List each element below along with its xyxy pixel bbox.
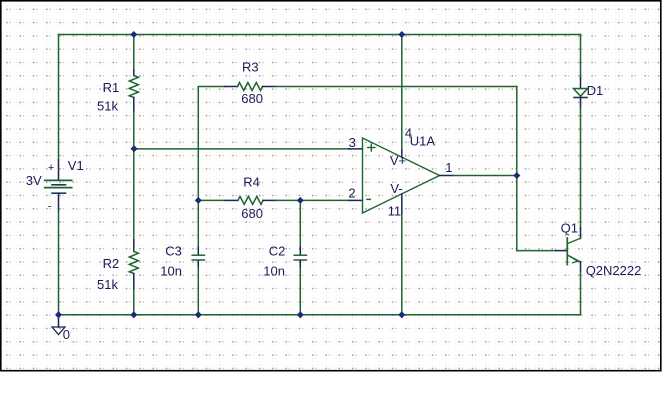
wire: Q1 emitter to bottom rail	[580, 262, 582, 315]
wire: C2 to bottom rail	[299, 268, 301, 315]
wire: op-amp output	[440, 175, 517, 177]
wire: C3 column upper	[197, 200, 199, 247]
svg-text:680: 680	[241, 206, 263, 221]
svg-text:0: 0	[63, 327, 70, 342]
wire: R4 left stub from node	[198, 199, 225, 201]
pin number 2	[348, 185, 355, 200]
svg-text:V+: V+	[390, 153, 406, 168]
resistor R3	[225, 83, 275, 91]
svg-text:11: 11	[388, 203, 402, 218]
op-amp U1A	[363, 138, 440, 213]
label V1	[68, 158, 84, 173]
node: bottom rail / R2	[130, 311, 137, 318]
svg-text:+: +	[48, 162, 54, 174]
wire: R3 left branch	[198, 87, 225, 201]
label 10n	[263, 263, 285, 278]
svg-text:4: 4	[405, 126, 412, 141]
svg-text:10n: 10n	[160, 263, 182, 278]
battery V1	[45, 162, 72, 213]
wire: R4 right to C2 node	[276, 199, 301, 201]
svg-text:Q2N2222: Q2N2222	[586, 263, 642, 278]
svg-text:2: 2	[348, 185, 355, 200]
label 3V	[26, 173, 42, 188]
svg-text:-: -	[48, 201, 52, 213]
wire: V- column to bottom rail	[401, 194, 403, 315]
capacitor C2	[294, 247, 306, 268]
label R4	[243, 174, 260, 189]
label D1	[587, 83, 604, 98]
label 10n	[160, 263, 182, 278]
pin number 11	[388, 203, 402, 218]
pin number 1	[445, 160, 452, 175]
diode D1	[574, 89, 588, 98]
node: top rail / V+ column	[398, 31, 405, 38]
wire: top rail	[59, 34, 581, 36]
svg-text:3V: 3V	[26, 173, 42, 188]
svg-text:680: 680	[241, 91, 263, 106]
svg-text:R2: R2	[103, 256, 120, 271]
wire: V+ column from top rail	[401, 35, 403, 158]
resistor R1	[129, 70, 138, 112]
wire: left rail lower (V1 to bottom rail)	[58, 193, 60, 315]
node: output/feedback junction	[513, 172, 520, 179]
svg-text:51k: 51k	[97, 277, 118, 292]
wire: R3 right to feedback column	[275, 86, 517, 88]
node: R4/C2/pin2 junction	[297, 197, 304, 204]
resistor R4	[226, 196, 276, 204]
svg-text:1: 1	[445, 160, 452, 175]
node: bottom rail / V- column	[398, 311, 405, 318]
svg-text:D1: D1	[587, 83, 604, 98]
wire: R1 to node A	[133, 112, 135, 149]
wire: R2 to bottom rail	[133, 290, 135, 315]
ground 0	[52, 315, 70, 342]
label R1	[103, 80, 120, 95]
svg-text:Q1: Q1	[561, 220, 578, 235]
transistor Q1	[567, 238, 580, 265]
svg-text:U1A: U1A	[410, 134, 436, 149]
label U1A	[410, 134, 436, 149]
pin number 4	[405, 126, 412, 141]
label Q2N2222	[586, 263, 642, 278]
wire: bottom rail	[59, 314, 581, 316]
wire: D1 column from top rail	[580, 35, 582, 89]
label R2	[103, 256, 120, 271]
capacitor C3	[192, 247, 204, 268]
label C2	[269, 244, 286, 259]
svg-text:C2: C2	[269, 244, 286, 259]
svg-text:10n: 10n	[263, 263, 285, 278]
resistor R2	[129, 240, 138, 290]
svg-text:R4: R4	[243, 174, 260, 189]
wire: R1 column from top rail	[133, 35, 135, 71]
svg-text:V1: V1	[68, 158, 84, 173]
node: bottom rail / ground	[55, 311, 62, 318]
label 680	[241, 91, 263, 106]
wire: R2 column	[133, 149, 135, 240]
label C3	[165, 244, 182, 259]
node: bottom rail / C3	[195, 311, 202, 318]
wire: left rail upper (to V1)	[58, 35, 60, 180]
node: bottom rail / C2	[297, 311, 304, 318]
wire: C2 column upper	[299, 200, 301, 247]
label R3	[242, 60, 259, 75]
wire: feedback column	[516, 87, 518, 251]
wire: base branch to Q1	[517, 250, 567, 252]
wire: C3 to bottom rail	[197, 268, 199, 315]
svg-text:R1: R1	[103, 80, 120, 95]
pin number 3	[349, 135, 356, 150]
svg-text:3: 3	[349, 135, 356, 150]
wire: pin 2 net	[300, 199, 362, 201]
svg-text:C3: C3	[165, 244, 182, 259]
svg-text:51k: 51k	[97, 98, 118, 113]
svg-text:R3: R3	[242, 60, 259, 75]
node: top rail / R1	[130, 31, 137, 38]
label 680	[241, 206, 263, 221]
label 51k	[97, 277, 118, 292]
label Q1	[561, 220, 578, 235]
node: R3/R4/C3 junction	[195, 197, 202, 204]
wire: D1 to Q1 collector	[580, 98, 582, 239]
svg-text:V-: V-	[390, 181, 402, 196]
node: R1/R2/pin3 junction	[130, 145, 137, 152]
label 51k	[97, 98, 118, 113]
wire: pin 3 net	[134, 148, 363, 150]
